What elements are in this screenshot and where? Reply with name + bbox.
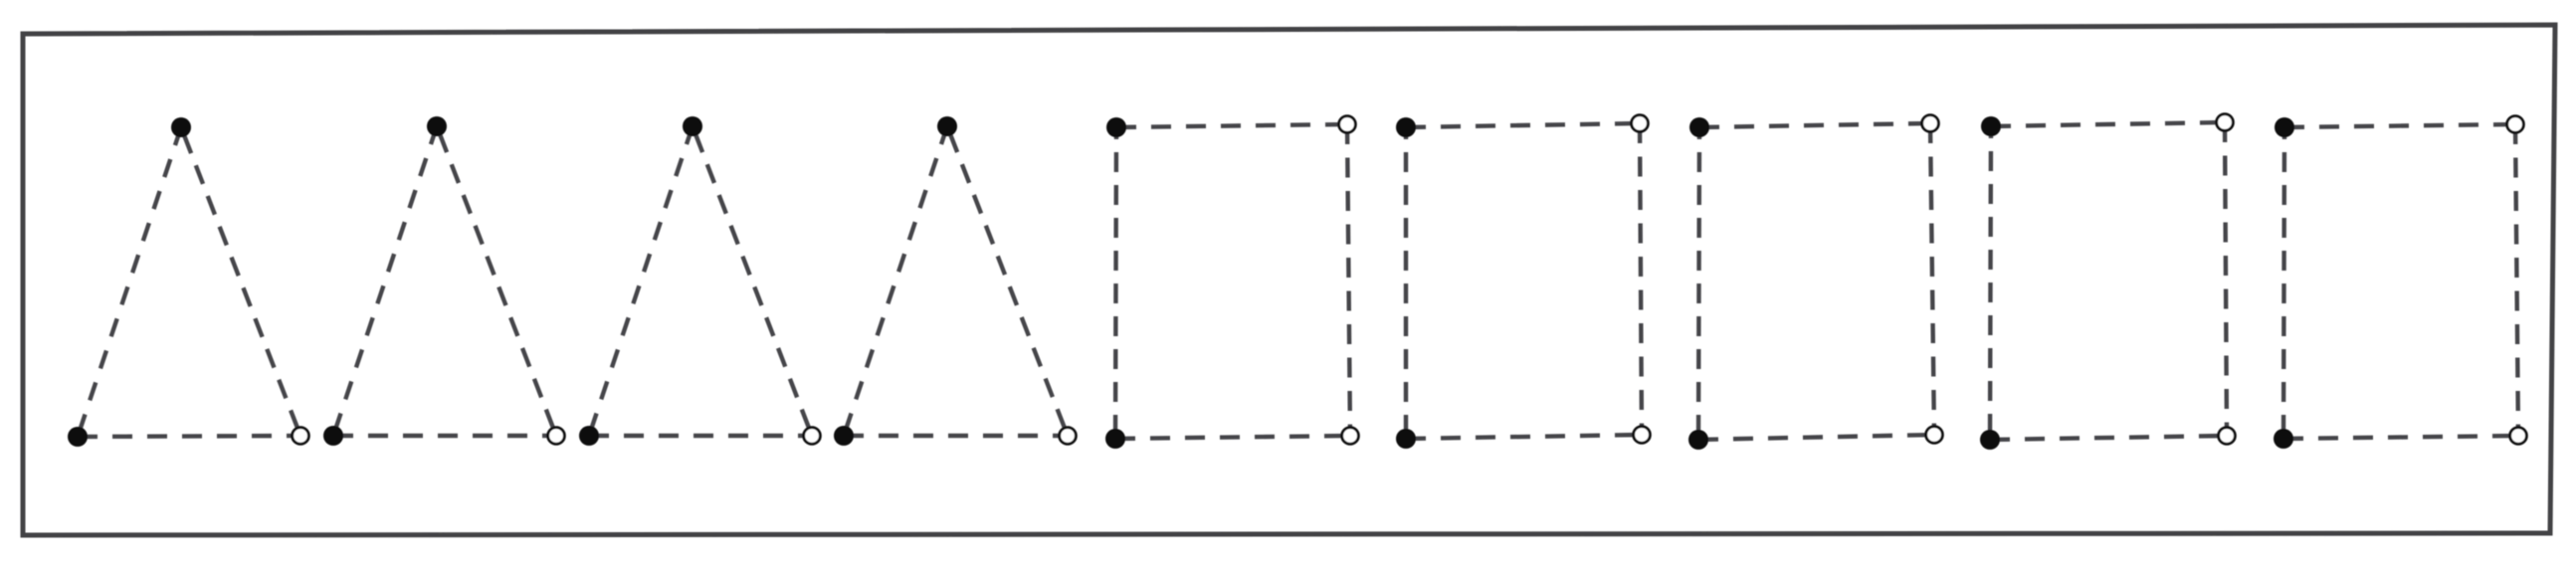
triangle T2 left side wire (apex to bottom-left) xyxy=(333,126,437,436)
square S4 bottom-right end node (open circle) xyxy=(2219,428,2236,445)
triangle T4 apex start dot (filled) xyxy=(937,116,957,136)
square S4 right side wire xyxy=(2225,122,2227,436)
square S2 bottom-right end node (open circle) xyxy=(1634,427,1651,444)
square S2 top side wire xyxy=(1406,123,1640,127)
triangle T1 apex start dot (filled) xyxy=(171,117,191,137)
square S4 left side wire xyxy=(1990,126,1991,440)
triangle T2 bottom-right end node (open circle) xyxy=(548,428,565,445)
square S2 right side wire xyxy=(1640,123,1642,435)
square S2 bottom-left start dot (filled) xyxy=(1396,429,1416,449)
square S3 right side wire xyxy=(1930,123,1934,435)
triangle T3 bottom-right end node (open circle) xyxy=(804,428,821,445)
square S4 top side wire xyxy=(1991,122,2225,126)
square S4 top-right end node (open circle) xyxy=(2217,114,2234,131)
square S5 left side wire xyxy=(2283,127,2284,439)
square S1 bottom-left start dot (filled) xyxy=(1105,429,1125,449)
triangle T1 base wire (bottom-left to bottom-right) xyxy=(78,436,300,437)
triangle T2 right side wire (apex to bottom-right) xyxy=(437,126,556,436)
triangle T2 bottom-left start dot (filled) xyxy=(323,426,343,446)
triangle T3 apex start dot (filled) xyxy=(683,116,702,136)
triangle T3 base wire (bottom-left to bottom-right) xyxy=(589,434,812,438)
triangle T3 bottom-left start dot (filled) xyxy=(579,426,599,446)
square S5 bottom side wire xyxy=(2283,436,2518,439)
triangle T1 bottom-left start dot (filled) xyxy=(68,427,88,447)
square S1 top-right end node (open circle) xyxy=(1339,116,1356,133)
triangle T4 bottom-left start dot (filled) xyxy=(834,426,854,446)
triangle T4 right side wire (apex to bottom-right) xyxy=(947,126,1068,436)
triangle T4 bottom-right end node (open circle) xyxy=(1060,428,1077,445)
square S5 right side wire xyxy=(2515,124,2518,436)
square S3 top-right end node (open circle) xyxy=(1922,115,1939,132)
square S1 right side wire xyxy=(1347,124,1350,436)
square S2 bottom side wire xyxy=(1406,435,1642,439)
square S5 top side wire xyxy=(2284,124,2515,127)
square S2 top-left start dot (filled) xyxy=(1396,117,1416,137)
triangle T4 base wire (bottom-left to bottom-right) xyxy=(844,434,1068,438)
square S5 bottom-left start dot (filled) xyxy=(2274,429,2293,449)
square S1 bottom side wire xyxy=(1115,436,1350,439)
square S3 left side wire xyxy=(1698,127,1699,440)
triangle T1 right side wire (apex to bottom-right) xyxy=(181,127,300,436)
triangle T1 bottom-right end node (open circle) xyxy=(293,428,309,445)
square S5 top-left start dot (filled) xyxy=(2275,117,2294,137)
square S4 bottom-left start dot (filled) xyxy=(1980,430,2000,450)
square S1 top side wire xyxy=(1116,124,1347,127)
square S3 top-left start dot (filled) xyxy=(1689,117,1709,137)
triangle T2 apex start dot (filled) xyxy=(427,116,447,136)
square S5 top-right end node (open circle) xyxy=(2507,116,2524,133)
triangle T1 left side wire (apex to bottom-left) xyxy=(78,127,181,437)
square S1 bottom-right end node (open circle) xyxy=(1342,428,1359,445)
square S1 left side wire xyxy=(1115,127,1116,439)
square S3 bottom side wire xyxy=(1698,435,1934,440)
square S2 top-right end node (open circle) xyxy=(1632,115,1649,132)
square S3 top side wire xyxy=(1699,123,1930,127)
square S4 top-left start dot (filled) xyxy=(1981,116,2001,136)
triangle T3 right side wire (apex to bottom-right) xyxy=(693,126,812,436)
triangle T3 left side wire (apex to bottom-left) xyxy=(589,126,693,436)
triangle T2 base wire (bottom-left to bottom-right) xyxy=(333,434,556,438)
square S4 bottom side wire xyxy=(1990,436,2227,440)
square S2 left side wire xyxy=(1404,127,1408,439)
square S3 bottom-left start dot (filled) xyxy=(1688,430,1708,450)
triangle T4 left side wire (apex to bottom-left) xyxy=(844,126,947,436)
square S5 bottom-right end node (open circle) xyxy=(2510,428,2527,445)
square S3 bottom-right end node (open circle) xyxy=(1926,427,1943,444)
square S1 top-left start dot (filled) xyxy=(1106,117,1126,137)
